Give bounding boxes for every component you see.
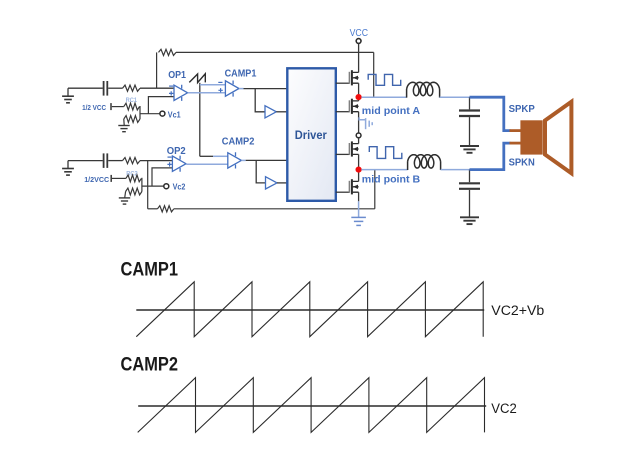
wire (C3 to ground) — [469, 117, 471, 146]
inductor L1 — [407, 82, 440, 97]
svg-text:OP1: OP1 — [168, 70, 186, 81]
speaker terminal SPKP stub — [510, 129, 521, 132]
ground power (blue) — [351, 217, 366, 225]
resistor RC2 — [126, 175, 141, 182]
wire — [112, 106, 124, 108]
wire — [108, 160, 122, 162]
wire — [112, 177, 126, 179]
op-amp OP2 — [167, 156, 186, 172]
wire (CAMP1 out stub) — [239, 88, 244, 90]
resistor R4 (feedback B) — [158, 206, 174, 212]
ground divider B — [119, 192, 130, 205]
wire (CAMP2 out to Driver) — [246, 159, 288, 161]
resistor R2 (feedback A) — [159, 49, 177, 55]
ground filter B — [460, 217, 479, 224]
terminal Vc1 — [160, 111, 165, 116]
sawtooth waveform CAMP1 — [136, 282, 483, 337]
wire (Q2 source down) — [358, 112, 360, 134]
wire (branch to buffer U4) — [256, 160, 265, 183]
terminal tick (B) — [110, 175, 112, 182]
svg-text:RC1: RC1 — [126, 97, 138, 104]
svg-text:mid point B: mid point B — [362, 174, 421, 185]
square wave icon B — [369, 147, 402, 159]
ground input A — [62, 88, 74, 103]
wire (sawtooth distribution) — [199, 83, 201, 157]
axis line (CAMP2 waveform) — [138, 405, 486, 407]
svg-text:mid point A: mid point A — [362, 106, 421, 117]
transistor Q2 (low side A) — [349, 99, 358, 114]
capacitor C2 (input B) — [104, 153, 108, 168]
wire (feedback B riser to mid point B) — [374, 170, 376, 209]
wire (VCC to Q1 drain) — [358, 44, 360, 73]
wire (gate Q3) — [336, 153, 350, 155]
resistor R1 (input A) — [123, 85, 141, 91]
wire (Q1 source to mid point A) — [358, 83, 360, 101]
wire — [68, 160, 103, 162]
wire (L2 to C4 node) — [441, 169, 470, 171]
wire (mid point A to L1) — [361, 96, 406, 98]
terminal (bridge B supply) — [356, 133, 361, 138]
resistor R3 (input B) — [123, 158, 141, 164]
wire (feedback A riser) — [156, 52, 158, 88]
wire (SPKN thick) — [470, 143, 511, 170]
speaker terminal SPKN stub — [510, 142, 521, 145]
svg-text:1/2 VCC: 1/2 VCC — [82, 103, 106, 112]
capacitor C1 (input A) — [104, 81, 108, 96]
wire (feedback A drop to mid point A) — [373, 52, 375, 97]
sawtooth generator icon — [189, 74, 205, 83]
resistor RC1 — [124, 103, 140, 110]
wire (buffer U3 out) — [276, 111, 287, 113]
transistor Q4 (low side B) — [349, 179, 358, 194]
svg-text:CAMP2: CAMP2 — [222, 136, 255, 147]
wire (branch to buffer U3) — [255, 89, 265, 112]
svg-text:CAMP1: CAMP1 — [121, 259, 179, 281]
svg-text:CAMP1: CAMP1 — [225, 68, 257, 79]
svg-text:SPKN: SPKN — [509, 157, 535, 168]
wire — [140, 160, 172, 162]
svg-text:Vc1: Vc1 — [168, 111, 181, 120]
buffer U4 — [266, 177, 278, 189]
speaker LS1 — [520, 102, 571, 173]
sawtooth waveform CAMP2 — [138, 378, 485, 433]
wire (Q3 source to mid point B) — [358, 154, 360, 181]
wire (feedback A top run) — [176, 51, 374, 53]
wire (mid point B to L2) — [361, 169, 407, 171]
svg-text:OP2: OP2 — [167, 146, 186, 157]
wire (C3 lead) — [469, 97, 471, 109]
wire (feedback B dropper) — [147, 161, 149, 209]
terminal tick (A) — [110, 103, 112, 110]
square wave icon A — [368, 74, 401, 85]
wire (node A to OP1 +) — [148, 97, 174, 114]
wire — [68, 87, 103, 89]
svg-text:VC2+Vb: VC2+Vb — [491, 303, 544, 319]
svg-text:VC2: VC2 — [491, 401, 517, 417]
ground filter A — [460, 146, 479, 153]
wire (buffer U4 out) — [277, 182, 287, 184]
wire (to power ground) — [358, 201, 360, 217]
wire (L1 to C3 node) — [440, 96, 470, 98]
wire (node A to Vc1) — [140, 113, 160, 115]
transistor Q3 (high side B) — [349, 141, 358, 156]
op-amp OP1 — [169, 85, 188, 101]
wire (sawtooth to CAMP1 -) — [200, 84, 226, 86]
resistor Rb2 (divider lower B) — [126, 188, 142, 195]
resistor Rb1 (divider lower A) — [124, 116, 140, 123]
inductor L2 — [408, 155, 441, 170]
wire (node B to OP2 +) — [152, 168, 172, 186]
wire (sawtooth to CAMP2 -) — [200, 155, 213, 157]
wire — [108, 87, 122, 89]
wire (gate Q4) — [336, 191, 350, 193]
comparator CAMP1 — [218, 81, 239, 97]
driver block U5 — [287, 68, 336, 201]
wire — [213, 155, 228, 157]
capacitor C4 (filter B) — [459, 183, 480, 189]
wire (node A drop) — [139, 107, 142, 119]
terminal VCC — [356, 39, 361, 44]
wire (OP1 out to CAMP1 +) — [188, 92, 226, 94]
svg-text:VCC: VCC — [350, 28, 368, 39]
wire (gate Q1) — [336, 82, 350, 84]
ground divider A — [118, 119, 129, 132]
comparator CAMP2 — [228, 152, 242, 168]
wire (CAMP2 out stub) — [241, 159, 245, 161]
wire — [140, 87, 174, 89]
terminal Vc2 — [164, 184, 169, 189]
ground input B — [62, 161, 74, 176]
buffer U3 — [265, 106, 276, 118]
wire (gate Q2) — [336, 111, 350, 113]
ground (rotated, half-bridge A) — [359, 117, 372, 129]
wire (C4 to ground) — [469, 190, 471, 217]
transistor Q1 (high side A) — [349, 70, 358, 85]
wire (node B to Vc2) — [142, 185, 164, 187]
wire (node B drop) — [140, 178, 143, 191]
wire (C4 lead) — [469, 170, 471, 183]
svg-text:SPKP: SPKP — [509, 104, 536, 115]
wire (Q4 source down) — [358, 192, 360, 201]
wire (OP2 out to CAMP2 +) — [186, 163, 228, 165]
wire (to Q3 drain) — [358, 138, 360, 144]
svg-text:Vc2: Vc2 — [173, 183, 186, 192]
node mid point A (junction dot) — [356, 94, 362, 100]
wire — [148, 208, 158, 210]
wire (CAMP1 out to Driver) — [244, 88, 288, 90]
wire (feedback B bottom run) — [174, 208, 375, 210]
svg-text:1/2VCC: 1/2VCC — [84, 175, 109, 184]
axis line (CAMP1 waveform) — [136, 309, 484, 311]
capacitor C3 (filter A) — [459, 111, 480, 117]
svg-text:Driver: Driver — [295, 128, 327, 142]
svg-text:CAMP2: CAMP2 — [121, 354, 179, 376]
wire (SPKP thick) — [470, 97, 511, 130]
node mid point B (junction dot) — [356, 167, 362, 173]
